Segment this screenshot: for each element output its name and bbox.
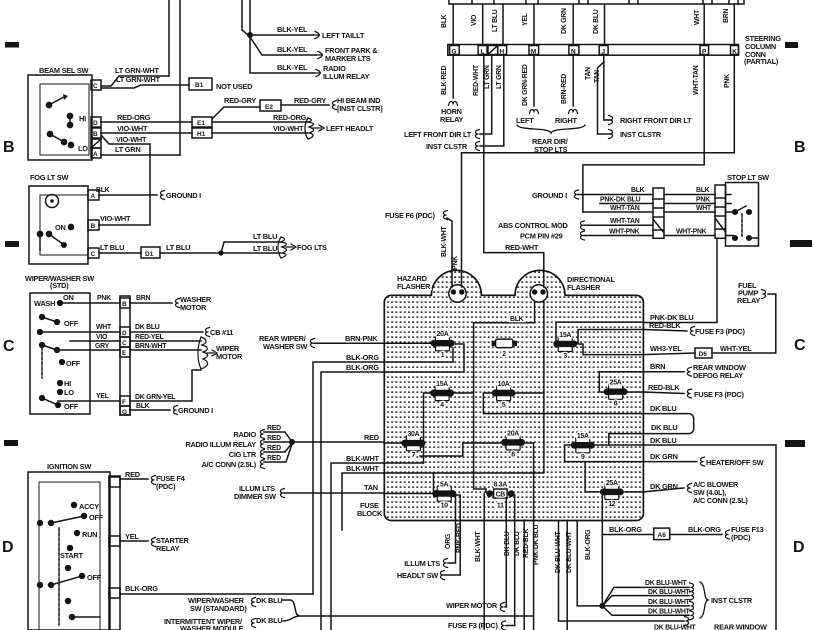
wire BLK-ORG riser 1	[313, 347, 453, 594]
wire PNK below K to hazard flasher feed	[462, 55, 735, 286]
svg-text:C: C	[3, 338, 15, 355]
wire WHT-TAN below P	[583, 55, 704, 212]
fuse 12 25A	[600, 480, 624, 508]
wire RED-YEL	[130, 340, 201, 342]
wire WHT-PNK between columns	[664, 235, 715, 237]
wire PNK between columns	[664, 203, 715, 205]
wire BLK to ground	[130, 409, 170, 411]
svg-text:DK GRN-YEL: DK GRN-YEL	[135, 394, 175, 401]
wire PNK wash to B	[60, 302, 120, 304]
svg-text:WH3-YEL: WH3-YEL	[650, 344, 682, 353]
svg-text:LT BLU: LT BLU	[166, 243, 190, 252]
svg-text:WASHER SW: WASHER SW	[263, 342, 307, 351]
wire LT GRN-WHT lower from terminal C to B1	[101, 85, 189, 88]
wire fuse8 right drop PNK-DK BLU	[523, 443, 534, 630]
wire fuse6 left riser to BRN exit	[599, 372, 643, 392]
svg-text:RADIO: RADIO	[233, 430, 256, 439]
beam sel sw terminal B	[91, 128, 101, 138]
svg-text:ILLUM LTS: ILLUM LTS	[404, 559, 440, 568]
wire YEL to F	[58, 400, 120, 402]
wire DK BLU drop to wiper motor	[505, 499, 506, 607]
svg-text:RED: RED	[267, 435, 281, 442]
svg-text:WHT: WHT	[696, 205, 712, 212]
svg-text:MOTOR: MOTOR	[180, 303, 207, 312]
connector brace WIPER MOTOR	[198, 337, 217, 369]
svg-text:OFF: OFF	[66, 359, 81, 368]
wire BLK-ORG 2 inside fuse block to fuse 1 right	[384, 344, 464, 372]
wire PNK-DK BLU riser to fuse block	[643, 238, 717, 322]
svg-text:RUN: RUN	[82, 530, 97, 539]
svg-text:LEFT FRONT DIR LT: LEFT FRONT DIR LT	[404, 130, 472, 139]
connector arrow FOG LTS	[278, 237, 296, 258]
wire WHT-TAN row	[583, 211, 653, 213]
wire WHT above P	[703, 4, 705, 45]
svg-text:OFF: OFF	[89, 513, 104, 522]
svg-text:WIPER MOTOR: WIPER MOTOR	[446, 601, 498, 610]
svg-text:RIGHT: RIGHT	[555, 116, 577, 125]
svg-text:FOG LT SW: FOG LT SW	[30, 173, 69, 182]
wire DK BLU-WHT drop 1	[559, 521, 685, 622]
svg-text:LT GRN: LT GRN	[496, 65, 503, 89]
svg-text:BRN: BRN	[723, 9, 730, 23]
wire VIO-WHT branch down to fog sw	[99, 135, 150, 225]
wire RED-WHT below L to directional flasher	[484, 55, 544, 286]
wire vertical from top x250	[249, 0, 251, 35]
svg-text:B: B	[91, 223, 96, 230]
svg-text:DK GRN-RED: DK GRN-RED	[522, 64, 529, 106]
wire long vertical from directional flasher	[434, 302, 544, 473]
svg-text:BLK: BLK	[696, 187, 710, 194]
wire fuse5 right tee to long vertical	[514, 392, 544, 394]
svg-text:RED-WHT: RED-WHT	[505, 243, 539, 252]
svg-text:PNK-RED: PNK-RED	[456, 523, 463, 553]
svg-text:FUSE F3 (PDC): FUSE F3 (PDC)	[695, 327, 746, 336]
beam sel sw contacts	[46, 102, 51, 107]
wire RED inside fuse block to fuse 7	[384, 442, 403, 444]
wire fuse10 right ORG drop	[448, 494, 456, 563]
wire WHT to D	[40, 331, 120, 333]
svg-text:VIO-WHT: VIO-WHT	[100, 214, 131, 223]
wire fuse12 left riser	[585, 462, 599, 492]
svg-text:DK GRN: DK GRN	[650, 452, 678, 461]
wire fan DK BLU-WHT 4	[602, 606, 689, 615]
wire VIO above L	[482, 4, 484, 45]
svg-text:DK BLU-WHT: DK BLU-WHT	[555, 530, 562, 573]
connector steering column main bar	[448, 45, 739, 56]
wire BRN to washer motor	[130, 302, 172, 304]
page margin tick bar left 2	[5, 241, 19, 247]
svg-text:TAN: TAN	[364, 483, 378, 492]
wire vertical from top x242	[242, 0, 248, 35]
splice H1	[192, 128, 212, 138]
svg-text:VIO-WHT: VIO-WHT	[116, 135, 147, 144]
hazard flasher socket	[449, 285, 466, 302]
svg-text:DK BLU: DK BLU	[514, 531, 521, 556]
svg-text:RED-GRY: RED-GRY	[294, 96, 326, 105]
svg-text:(PDC): (PDC)	[156, 482, 176, 491]
svg-text:(STD): (STD)	[50, 281, 69, 290]
wire LT BLU from D1	[160, 252, 221, 254]
svg-text:B: B	[93, 131, 98, 138]
svg-text:PNK-DK BLU: PNK-DK BLU	[600, 197, 641, 204]
wire fuse3 right to WHT-YEL exit	[578, 344, 643, 355]
svg-text:FLASHER: FLASHER	[567, 283, 601, 292]
wire BLK-ORG to A6 box	[602, 534, 653, 536]
svg-text:BLK: BLK	[510, 316, 524, 323]
svg-text:GROUND I: GROUND I	[178, 406, 213, 415]
wire RED-GRY to splice E2	[212, 107, 260, 119]
svg-text:DK BLU-WHT: DK BLU-WHT	[648, 609, 691, 616]
svg-text:9: 9	[581, 454, 585, 461]
wire DK GRN above N	[572, 4, 574, 45]
wire BLK-ORG riser 2	[321, 344, 464, 630]
svg-text:D: D	[793, 539, 805, 556]
svg-text:8.3A: 8.3A	[494, 482, 508, 489]
svg-text:OFF: OFF	[87, 573, 102, 582]
svg-text:ON: ON	[63, 293, 74, 302]
wire fuse3 right to RED-BLK exit	[576, 330, 643, 344]
ignition terminal strip	[109, 476, 120, 630]
svg-text:VIO-WHT: VIO-WHT	[273, 124, 304, 133]
wire BLK between columns	[664, 194, 715, 196]
svg-text:RED: RED	[125, 470, 141, 479]
wire VIO-WHT from terminal B to H1	[101, 132, 192, 134]
svg-text:MOTOR: MOTOR	[216, 352, 243, 361]
svg-text:RED: RED	[267, 425, 281, 432]
svg-text:5: 5	[502, 402, 506, 409]
wire fuse8 left	[420, 443, 503, 456]
wire RED-GRY to HI BEAM IND	[281, 104, 329, 106]
wire DK GRN-RED below M	[533, 55, 535, 106]
svg-text:DK BLU-WHT: DK BLU-WHT	[648, 589, 691, 596]
wire BLK-WHT drop from CB11 left	[483, 494, 485, 630]
wire TAN 2 to inst clstr	[598, 62, 611, 134]
svg-text:LT GRN-WHT: LT GRN-WHT	[116, 75, 160, 84]
svg-text:DIMMER SW: DIMMER SW	[234, 492, 276, 501]
wire BLK-WHT 2 inside fuse block to fuse 10	[384, 473, 434, 491]
wire CB11 right DK BLU drop	[506, 495, 515, 626]
svg-text:15A: 15A	[559, 332, 571, 339]
svg-text:VIO: VIO	[471, 14, 478, 26]
steering conn cell J	[599, 46, 608, 55]
connector arrow LEFT HEADLT	[305, 118, 324, 139]
svg-text:FUSE F3 (PDC): FUSE F3 (PDC)	[694, 390, 745, 399]
svg-text:BLK: BLK	[441, 14, 448, 28]
svg-text:D: D	[2, 539, 14, 556]
svg-text:LT BLU: LT BLU	[253, 232, 277, 241]
svg-text:BLK-RED: BLK-RED	[441, 65, 448, 95]
wire BLK-WHT 1 inside fuse block	[384, 462, 424, 464]
svg-text:C: C	[794, 337, 806, 354]
wire RED-BLK drop	[523, 520, 525, 630]
svg-text:DK BLU: DK BLU	[650, 404, 676, 413]
wire BLK to connector	[578, 194, 653, 196]
svg-text:G: G	[122, 409, 127, 416]
fog sw terminal B	[88, 220, 99, 230]
wire VIO-WHT H1 to left headlt	[212, 132, 308, 134]
svg-text:BLK: BLK	[136, 403, 150, 410]
svg-text:INST CLSTR: INST CLSTR	[426, 142, 468, 151]
svg-text:3: 3	[563, 353, 567, 360]
wire LT BLU to splice D1	[99, 252, 141, 254]
svg-text:DK BLU: DK BLU	[256, 616, 282, 625]
splice D6	[695, 348, 712, 358]
svg-text:DK BLU-WHT: DK BLU-WHT	[645, 580, 688, 587]
svg-text:BLOCK: BLOCK	[357, 509, 383, 518]
wire BRN-PNK feed to fuse 1	[314, 342, 431, 344]
wire LT GRN-WHT upper from terminal C	[101, 76, 169, 86]
wire fuse4 right tee	[424, 393, 474, 463]
svg-text:LEFT TAILLT: LEFT TAILLT	[322, 31, 365, 40]
wire TAN to fuse 10	[284, 492, 433, 494]
brace REAR DIR/STOP LTS	[517, 125, 585, 133]
svg-text:20A: 20A	[507, 430, 519, 437]
wire LT GRN 2 to inst clstr	[480, 55, 504, 146]
wiper sw terminal strip	[120, 296, 130, 415]
svg-text:HEADLT SW: HEADLT SW	[397, 571, 438, 580]
wire DK BLU above J	[604, 4, 606, 45]
svg-text:PCM PIN #29: PCM PIN #29	[520, 232, 563, 241]
svg-text:DK BLU: DK BLU	[504, 531, 511, 556]
wire RED-ORG E1 to left headlt	[212, 121, 308, 123]
svg-text:RELAY: RELAY	[156, 544, 179, 553]
svg-text:LEFT HEADLT: LEFT HEADLT	[326, 124, 374, 133]
svg-text:6: 6	[614, 401, 618, 408]
svg-text:HI: HI	[64, 379, 71, 388]
svg-text:DK BLU: DK BLU	[593, 9, 600, 34]
svg-text:C: C	[122, 340, 127, 347]
connector column left	[653, 188, 664, 238]
wire WHT-YEL fuel pump	[712, 294, 776, 353]
svg-text:YEL: YEL	[125, 532, 139, 541]
wire BLK-WHT and PNK into hazard flasher	[452, 271, 462, 287]
wire vertical to top edge x180	[179, 0, 181, 155]
steering conn cell L	[478, 46, 487, 55]
svg-text:WHT-PNK: WHT-PNK	[676, 229, 707, 236]
wire VIO to C	[70, 340, 120, 342]
circuit breaker CB 11 8.3A	[486, 482, 514, 510]
svg-text:DK BLU: DK BLU	[256, 596, 282, 605]
directional flasher socket	[530, 285, 547, 302]
steering conn slash cell	[488, 46, 498, 55]
fuse 7 30A	[402, 431, 426, 459]
svg-text:LT GRN: LT GRN	[115, 145, 140, 154]
wire BRN-WHT	[130, 349, 201, 351]
svg-text:RED: RED	[267, 455, 281, 462]
svg-text:MARKER LTS: MARKER LTS	[325, 54, 371, 63]
splice E2	[260, 100, 281, 111]
junction dot inst clstr fan	[599, 603, 605, 609]
svg-text:WHT-PNK: WHT-PNK	[609, 229, 640, 236]
svg-text:DK BLU-WHT: DK BLU-WHT	[654, 625, 697, 630]
svg-text:H1: H1	[197, 131, 206, 138]
svg-text:F: F	[122, 399, 126, 406]
svg-text:RED-BLK: RED-BLK	[523, 528, 530, 558]
svg-text:TAN: TAN	[594, 70, 601, 83]
svg-text:LEFT: LEFT	[516, 116, 534, 125]
svg-text:[INST CLSTR]: [INST CLSTR]	[337, 104, 383, 113]
wire vertical to top edge x169	[168, 0, 170, 76]
svg-text:D1: D1	[145, 251, 154, 258]
svg-text:A/C CONN (2.5L): A/C CONN (2.5L)	[201, 460, 256, 469]
svg-text:BEAM SEL SW: BEAM SEL SW	[39, 66, 89, 75]
svg-text:PNK: PNK	[724, 74, 731, 88]
svg-text:VIO-WHT: VIO-WHT	[117, 124, 148, 133]
wire LT BLU above H	[502, 4, 504, 45]
svg-text:BLK-ORG: BLK-ORG	[609, 525, 642, 534]
svg-text:10A: 10A	[498, 381, 510, 388]
wire RED-WHT into directional flasher	[543, 271, 545, 287]
svg-text:FLASHER: FLASHER	[397, 282, 431, 291]
wire DK GRN-YEL wrap to wiper motor brace	[130, 370, 201, 401]
svg-text:FUSE F3 (PDC): FUSE F3 (PDC)	[448, 621, 499, 630]
svg-text:WHT-TAN: WHT-TAN	[610, 205, 640, 212]
svg-text:FUSE F6 (PDC): FUSE F6 (PDC)	[385, 211, 436, 220]
svg-text:DEFOG RELAY: DEFOG RELAY	[693, 371, 743, 380]
svg-text:OFF: OFF	[64, 402, 79, 411]
svg-text:BLK-ORG: BLK-ORG	[125, 584, 158, 593]
wire fuse5 left loop to fuse9 right	[483, 393, 693, 445]
wire DK BLU merge to module	[283, 600, 533, 621]
svg-text:ACCY: ACCY	[79, 502, 99, 511]
svg-text:CB: CB	[496, 492, 506, 499]
brace INST CLSTR	[700, 582, 708, 618]
wire BLK above G	[452, 4, 454, 45]
svg-text:10: 10	[441, 503, 449, 510]
wire BLK-ORG drop to A6	[601, 492, 603, 606]
svg-text:HI: HI	[79, 114, 86, 123]
svg-text:20A: 20A	[437, 331, 449, 338]
svg-text:STOP LT SW: STOP LT SW	[727, 173, 769, 182]
svg-text:LT GRN-WHT: LT GRN-WHT	[115, 66, 159, 75]
page margin tick bar left 1	[5, 42, 19, 48]
wire WHT-PNK row	[584, 235, 653, 237]
svg-text:11: 11	[497, 503, 504, 510]
svg-text:DK BLU: DK BLU	[650, 436, 676, 445]
wire drop to inst clstr dot	[577, 521, 602, 606]
svg-text:WHT: WHT	[96, 324, 112, 331]
svg-text:IGNITION SW: IGNITION SW	[47, 462, 91, 471]
svg-text:RED-WHT: RED-WHT	[473, 64, 480, 96]
svg-text:BRN: BRN	[650, 362, 665, 371]
beam sel sw terminal slash cell	[91, 139, 101, 148]
wire BLK-YEL to LEFT TAILLT	[250, 34, 313, 36]
wire GRY to E	[57, 349, 120, 351]
steering conn cell P	[700, 46, 709, 55]
svg-text:BRN-WHT: BRN-WHT	[135, 343, 167, 350]
svg-text:RED-ORG: RED-ORG	[117, 113, 151, 122]
fuse 6 25A	[604, 380, 628, 408]
svg-text:RED-BLK: RED-BLK	[648, 383, 680, 392]
svg-text:E: E	[122, 350, 127, 357]
svg-text:BLK-ORG: BLK-ORG	[346, 363, 379, 372]
svg-text:RED: RED	[364, 433, 380, 442]
svg-text:LO: LO	[64, 388, 74, 397]
fuse 1 20A	[431, 331, 455, 359]
wire LT GRN 1 to left front dir lt	[480, 55, 492, 134]
wire DK BLU-WHT drop 2	[566, 521, 568, 630]
svg-text:D: D	[122, 330, 127, 337]
wire BLK-YEL to RADIO ILLUM RELAY	[250, 35, 314, 73]
wire BLK-RED below G to horn relay	[452, 55, 454, 98]
svg-text:RIGHT FRONT DIR LT: RIGHT FRONT DIR LT	[620, 116, 692, 125]
svg-text:INST CLSTR: INST CLSTR	[711, 596, 753, 605]
svg-text:B1: B1	[195, 82, 204, 89]
svg-text:RELAY: RELAY	[440, 115, 463, 124]
wire BLK-WHT 2	[342, 473, 433, 530]
label LEFT FRONT DIR LT	[475, 130, 479, 139]
svg-text:WHT: WHT	[694, 9, 701, 25]
svg-text:15A: 15A	[436, 381, 448, 388]
svg-text:RED-YEL: RED-YEL	[135, 334, 164, 341]
svg-text:G: G	[452, 49, 457, 56]
svg-text:YEL: YEL	[522, 13, 529, 26]
svg-text:7: 7	[412, 452, 416, 459]
svg-text:(PARTIAL): (PARTIAL)	[744, 57, 779, 66]
fuse 5 10A	[492, 381, 516, 409]
wire WHT between columns	[664, 211, 715, 213]
svg-text:A: A	[91, 193, 96, 200]
svg-text:ILLUM RELAY: ILLUM RELAY	[323, 72, 370, 81]
svg-text:DK BLU: DK BLU	[651, 423, 677, 432]
svg-text:WASHER MODULE: WASHER MODULE	[180, 624, 244, 630]
fuse 4 15A	[430, 381, 454, 409]
fuse position 2 spare	[492, 339, 517, 358]
wire fuse12 right DK GRN exit	[625, 491, 643, 493]
svg-text:CB #11: CB #11	[210, 328, 233, 337]
svg-text:DK BLU: DK BLU	[135, 324, 160, 331]
svg-text:BLK-WHT: BLK-WHT	[475, 531, 482, 562]
svg-text:LT BLU: LT BLU	[492, 9, 499, 32]
switch BEAM SEL SW box	[28, 75, 92, 160]
svg-text:BLK-WHT: BLK-WHT	[441, 226, 448, 257]
svg-text:ABS CONTROL MOD: ABS CONTROL MOD	[498, 221, 569, 230]
svg-text:LT BLU: LT BLU	[253, 244, 277, 253]
wire PNK-DK BLU row	[600, 203, 653, 205]
svg-text:VIO: VIO	[96, 334, 108, 341]
svg-text:REAR WINDOW: REAR WINDOW	[714, 623, 767, 630]
svg-text:LO: LO	[78, 144, 88, 153]
wire LT BLU pair to FOG LTS	[221, 242, 281, 253]
splice A6	[654, 528, 670, 540]
splice B1	[189, 78, 212, 90]
svg-text:YEL: YEL	[96, 393, 109, 400]
svg-text:B: B	[122, 301, 127, 308]
stop lt sw contacts	[726, 195, 734, 213]
svg-text:A6: A6	[658, 532, 667, 539]
wire BLK-ORG 1 inside fuse block to fuse 1	[384, 348, 453, 362]
svg-text:4: 4	[440, 402, 444, 409]
wire RED fan to radio	[260, 430, 264, 439]
junction dot BLK-YEL	[247, 32, 253, 38]
svg-text:30A: 30A	[407, 431, 419, 438]
svg-text:GRY: GRY	[95, 343, 110, 350]
wire BRN-RED below N	[572, 55, 574, 106]
svg-text:DK BLU-WHT: DK BLU-WHT	[648, 599, 691, 606]
connector column right	[715, 185, 726, 238]
wire fuse6 right to RED-BLK exit	[625, 391, 643, 393]
splice E1	[192, 117, 212, 127]
fog sw lamp symbol	[46, 195, 59, 208]
label INST CLSTR left	[475, 142, 479, 151]
steering conn cell M	[529, 46, 539, 55]
svg-text:NOT USED: NOT USED	[216, 82, 253, 91]
page margin tick bar right 1	[785, 42, 798, 48]
fuse block body with stipple	[384, 270, 643, 520]
svg-text:BRN-PNK: BRN-PNK	[345, 334, 378, 343]
svg-text:GROUND I: GROUND I	[166, 191, 201, 200]
svg-text:LT GRN: LT GRN	[484, 65, 491, 89]
